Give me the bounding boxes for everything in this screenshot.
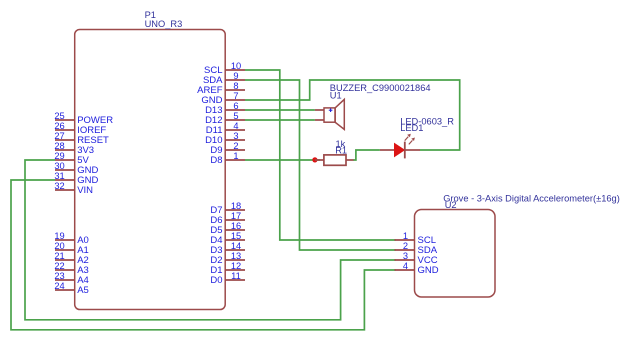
wire net GND: P1 pin 7 to LED1 cathode	[245, 80, 460, 150]
pin 23 (A4) of P1	[54, 271, 88, 286]
svg-text:25: 25	[54, 111, 64, 121]
svg-text:D0: D0	[210, 275, 222, 286]
svg-text:A5: A5	[77, 285, 89, 296]
LED1 cathode bar	[404, 142, 406, 159]
svg-text:11: 11	[231, 271, 241, 281]
wire net D13: P1 pin 6 to buzzer U1 pin +	[245, 109, 315, 111]
LED1 emission arrow 1	[405, 134, 411, 141]
svg-text:1: 1	[403, 231, 408, 241]
pin 30 (GND) of P1	[54, 161, 98, 176]
svg-text:Grove - 3-Axis Digital Acceler: Grove - 3-Axis Digital Accelerometer(±16…	[443, 194, 620, 204]
svg-text:19: 19	[54, 231, 64, 241]
LED1 triangle (diode body)	[395, 144, 405, 157]
svg-text:29: 29	[54, 151, 64, 161]
pin 13 (D2) of P1	[210, 251, 245, 266]
pin 31 (GND) of P1	[54, 171, 98, 186]
LED1 emission arrow 2	[409, 138, 415, 145]
pin 22 (A3) of P1	[54, 261, 88, 276]
pin 1 (SCL) of U2	[395, 231, 436, 246]
svg-text:4: 4	[403, 261, 408, 271]
svg-text:10: 10	[231, 61, 241, 71]
junction dot on net D8 at R1 pin	[312, 157, 317, 162]
pin 18 (D7) of P1	[210, 201, 245, 216]
svg-text:LED1: LED1	[400, 123, 423, 133]
pin 7 (GND) of P1	[201, 91, 245, 106]
svg-text:32: 32	[54, 181, 64, 191]
resistor R1 left pin stub	[315, 159, 324, 161]
svg-text:6: 6	[233, 101, 238, 111]
pin 14 (D3) of P1	[210, 241, 245, 256]
wire net D12: P1 pin 5 to buzzer U1 pin -	[245, 119, 315, 121]
svg-text:U2: U2	[445, 200, 457, 210]
svg-text:2: 2	[233, 141, 238, 151]
svg-text:GND: GND	[418, 265, 439, 276]
svg-text:9: 9	[233, 71, 238, 81]
resistor R1 body	[324, 155, 346, 165]
svg-text:3: 3	[403, 251, 408, 261]
wire: R1 to LED1 anode	[353, 150, 380, 160]
resistor R1 right pin stub	[346, 159, 354, 161]
pin 9 (SDA) of P1	[203, 71, 245, 86]
IC P1 UNO_R3 body	[75, 30, 226, 310]
svg-text:21: 21	[54, 251, 64, 261]
pin 15 (D4) of P1	[210, 231, 245, 246]
pin 2 (D9) of P1	[210, 141, 245, 156]
svg-text:8: 8	[233, 81, 238, 91]
pin 4 (GND) of U2	[395, 261, 439, 276]
svg-text:R1: R1	[335, 145, 347, 155]
svg-text:17: 17	[231, 211, 241, 221]
svg-text:BUZZER_C9900021864: BUZZER_C9900021864	[330, 83, 431, 93]
pin 27 (RESET) of P1	[54, 131, 109, 146]
pin 25 (POWER) of P1	[54, 111, 113, 126]
pin 3 (D10) of P1	[205, 131, 245, 146]
pin 21 (A2) of P1	[54, 251, 88, 266]
svg-text:28: 28	[54, 141, 64, 151]
svg-text:20: 20	[54, 241, 64, 251]
svg-text:30: 30	[54, 161, 64, 171]
buzzer U1 plus polarity mark	[329, 108, 333, 112]
svg-text:14: 14	[231, 241, 241, 251]
svg-text:5: 5	[233, 111, 238, 121]
pin 4 (D11) of P1	[206, 121, 245, 136]
wire net GND: P1 pin 31 to U2 pin 4 GND	[11, 180, 396, 330]
svg-text:18: 18	[231, 201, 241, 211]
buzzer U1 pin 2 stub	[315, 119, 324, 121]
pin 19 (A0) of P1	[54, 231, 88, 246]
svg-text:26: 26	[54, 121, 64, 131]
LED1 cathode pin stub	[405, 149, 420, 151]
pin 20 (A1) of P1	[54, 241, 88, 256]
pin 24 (A5) of P1	[54, 281, 88, 296]
pin 1 (D8) of P1	[210, 151, 245, 166]
wire net SCL: P1 pin 10 to U2 pin 1	[245, 70, 396, 240]
svg-text:7: 7	[233, 91, 238, 101]
svg-text:4: 4	[233, 121, 238, 131]
svg-text:UNO_R3: UNO_R3	[145, 19, 183, 29]
buzzer U1 pin 1 stub	[315, 109, 324, 111]
wire net SDA: P1 pin 9 to U2 pin 2	[245, 80, 396, 250]
svg-text:1: 1	[233, 151, 238, 161]
pin 6 (D13) of P1	[205, 101, 245, 116]
svg-text:24: 24	[54, 281, 64, 291]
buzzer U1 body	[324, 99, 344, 129]
pin 26 (IOREF) of P1	[54, 121, 106, 136]
svg-text:27: 27	[54, 131, 64, 141]
module U2 Grove accelerometer body	[415, 210, 496, 298]
pin 12 (D1) of P1	[210, 261, 245, 276]
svg-text:22: 22	[54, 261, 64, 271]
svg-text:D8: D8	[210, 155, 222, 166]
pin 5 (D12) of P1	[205, 111, 245, 126]
svg-text:15: 15	[231, 231, 241, 241]
svg-text:VIN: VIN	[77, 185, 93, 196]
pin 10 (SCL) of P1	[204, 61, 245, 76]
svg-text:12: 12	[231, 261, 241, 271]
pin 3 (VCC) of U2	[395, 251, 438, 266]
pin 29 (5V) of P1	[54, 151, 89, 166]
svg-text:13: 13	[231, 251, 241, 261]
svg-text:U1: U1	[330, 90, 342, 100]
svg-text:23: 23	[54, 271, 64, 281]
svg-text:2: 2	[403, 241, 408, 251]
wire net 5V: P1 pin 29 to U2 pin 3 VCC	[25, 160, 396, 320]
svg-text:3: 3	[233, 131, 238, 141]
svg-text:16: 16	[231, 221, 241, 231]
LED1 anode pin stub	[380, 149, 395, 151]
svg-text:31: 31	[54, 171, 64, 181]
pin 17 (D6) of P1	[210, 211, 245, 226]
pin 2 (SDA) of U2	[395, 241, 438, 256]
pin 28 (3V3) of P1	[54, 141, 94, 156]
wire net D8: P1 pin 1 to resistor R1	[245, 159, 320, 161]
pin 32 (VIN) of P1	[54, 181, 93, 196]
pin 11 (D0) of P1	[210, 271, 245, 286]
pin 16 (D5) of P1	[210, 221, 245, 236]
pin 8 (AREF) of P1	[197, 81, 245, 96]
